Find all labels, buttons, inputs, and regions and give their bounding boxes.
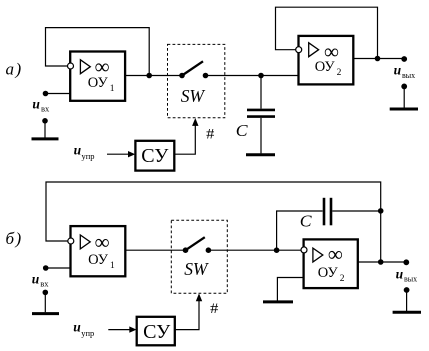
input lower terminal dot (а) xyxy=(42,118,48,124)
ground (а, output) xyxy=(390,86,418,109)
svg-text:∞: ∞ xyxy=(95,230,110,254)
svg-text:SW: SW xyxy=(184,259,209,279)
op-amp U2 (ОУ2, circuit а) xyxy=(299,36,354,85)
svg-text:вх: вх xyxy=(40,278,49,288)
svg-text:u: u xyxy=(73,319,81,334)
svg-text:СУ: СУ xyxy=(141,145,169,167)
inverting input bubble U1 (а) xyxy=(68,63,74,69)
arrow u_upr to SU (а) xyxy=(107,151,135,157)
inverting input bubble U2 (а) xyxy=(296,47,302,53)
feedback wire U1 (а) xyxy=(46,28,150,76)
op-amp U3 (ОУ1, circuit б) xyxy=(71,226,126,276)
svg-text:вх: вх xyxy=(41,103,50,113)
wire U3 output to switch (б) xyxy=(125,249,185,251)
wire switch to op-amp U4 (б) xyxy=(208,249,303,251)
node on feedback vertical at C (б) xyxy=(378,208,384,214)
ground (а, capacitor) xyxy=(246,153,275,156)
op-amp U4 (ОУ2, circuit б) xyxy=(304,239,358,288)
switch contacts SW (б) xyxy=(183,237,212,253)
output terminal dot (б) xyxy=(403,259,409,265)
node on U4 output (б) xyxy=(378,259,384,265)
wire U4 output (б) xyxy=(358,261,407,263)
control unit SU box (б) xyxy=(137,317,175,346)
capacitor C (б) xyxy=(324,198,331,226)
svg-text:#: # xyxy=(206,127,215,143)
svg-text:C: C xyxy=(300,212,312,231)
input terminal dot u_vx (б) xyxy=(43,265,49,271)
control unit SU box (а) xyxy=(135,141,174,171)
wire SU to switch with arrow (б) xyxy=(175,293,202,329)
ground (а, input) xyxy=(32,121,59,139)
input terminal dot u_vx (а) xyxy=(43,91,49,97)
wire input terminal to U1 (а) xyxy=(46,93,71,95)
wire switch to op-amp U2 (а) xyxy=(206,75,299,77)
ground (б, U4 input) xyxy=(263,300,293,303)
svg-text:упр: упр xyxy=(81,328,94,338)
svg-text:вых: вых xyxy=(404,275,417,284)
output lower terminal dot (а) xyxy=(401,84,407,90)
node on U1 output (а) xyxy=(146,73,152,79)
wire U1 output to switch (а) xyxy=(125,75,182,77)
ground (б, output) xyxy=(393,290,421,312)
svg-text:СУ: СУ xyxy=(143,321,171,343)
op-amp U1 (ОУ1, circuit а) xyxy=(70,52,125,101)
ground (б, input) xyxy=(32,292,59,313)
svg-text:#: # xyxy=(210,301,219,317)
svg-text:SW: SW xyxy=(181,86,206,106)
svg-text:вых: вых xyxy=(402,71,415,80)
switch SW dashed box (б) xyxy=(171,220,227,293)
node C connection (а) xyxy=(258,73,264,79)
switch contacts SW (а) xyxy=(179,61,208,78)
svg-text:а): а) xyxy=(6,59,23,78)
capacitor C (а) xyxy=(247,76,275,154)
svg-text:u: u xyxy=(32,271,40,286)
svg-text:u: u xyxy=(396,266,404,281)
svg-text:∞: ∞ xyxy=(328,242,343,266)
arrow u_upr to SU (б) xyxy=(108,326,136,332)
feedback wire U2 (а) xyxy=(276,7,378,58)
node on U2 output (а) xyxy=(375,56,381,62)
svg-text:u: u xyxy=(74,142,82,157)
capacitor C branch wire right (б) xyxy=(332,210,380,212)
svg-text:u: u xyxy=(32,96,40,111)
wire SU to switch with arrow (а) xyxy=(174,118,198,154)
svg-text:u: u xyxy=(394,63,402,78)
switch SW dashed box (а) xyxy=(168,44,225,117)
capacitor C branch wire left (б) xyxy=(277,211,323,250)
input lower terminal dot (б) xyxy=(43,290,49,296)
svg-text:б): б) xyxy=(6,229,23,248)
feedback wire U3 from U4 output (б) xyxy=(46,182,381,262)
wire U2 output (а) xyxy=(353,58,404,60)
node feedback C connection (б) xyxy=(274,247,280,253)
noninverting input ground wire U4 (б) xyxy=(277,278,303,301)
wire input terminal to U3 (б) xyxy=(46,267,71,269)
output terminal dot (а) xyxy=(401,56,407,62)
svg-text:C: C xyxy=(236,121,248,140)
inverting input bubble U3 (б) xyxy=(68,238,74,244)
svg-text:упр: упр xyxy=(82,151,95,161)
output lower terminal dot (б) xyxy=(404,287,410,293)
inverting input bubble U4 (б) xyxy=(301,247,307,253)
